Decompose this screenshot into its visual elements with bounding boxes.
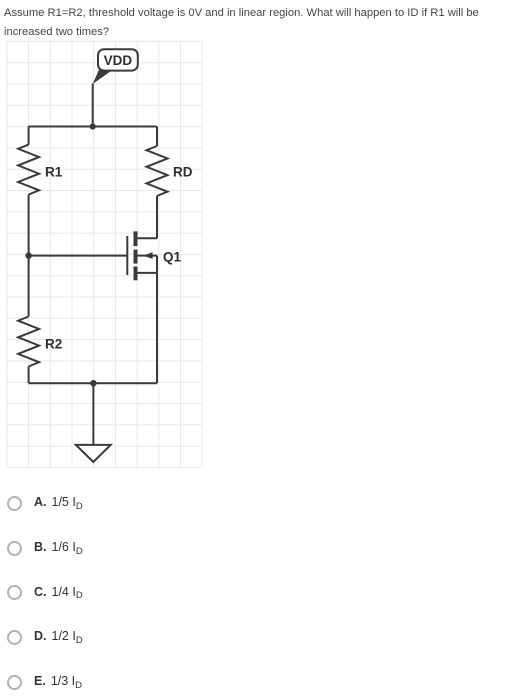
svg-text:Q1: Q1 [163,249,182,264]
svg-text:R1: R1 [45,164,63,179]
svg-text:R2: R2 [45,336,62,351]
svg-text:RD: RD [173,164,193,179]
svg-text:VDD: VDD [104,53,133,68]
